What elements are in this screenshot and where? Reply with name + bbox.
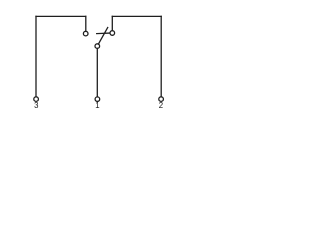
terminal circle pin 2 [159,97,164,102]
contact circle common pole [95,44,100,49]
contact circle throw B [83,31,88,36]
fixed contact seat line of throw A [97,32,110,35]
wire pin1 vertical [96,49,98,97]
wire pin2 vertical [160,16,162,96]
terminal circle pin 1 [95,97,100,102]
wire right bracket top horizontal [112,15,161,17]
svg-text:2: 2 [159,101,163,110]
wire left bracket top horizontal [36,15,86,17]
wire pin3 vertical [35,16,37,96]
wire stub to throw contact A [111,16,113,30]
switch lever arm [98,28,107,45]
terminal circle pin 3 [34,97,39,102]
wire stub to throw contact B [85,16,87,31]
svg-text:1: 1 [95,101,99,110]
svg-text:3: 3 [34,101,38,110]
contact circle throw A [110,31,115,36]
